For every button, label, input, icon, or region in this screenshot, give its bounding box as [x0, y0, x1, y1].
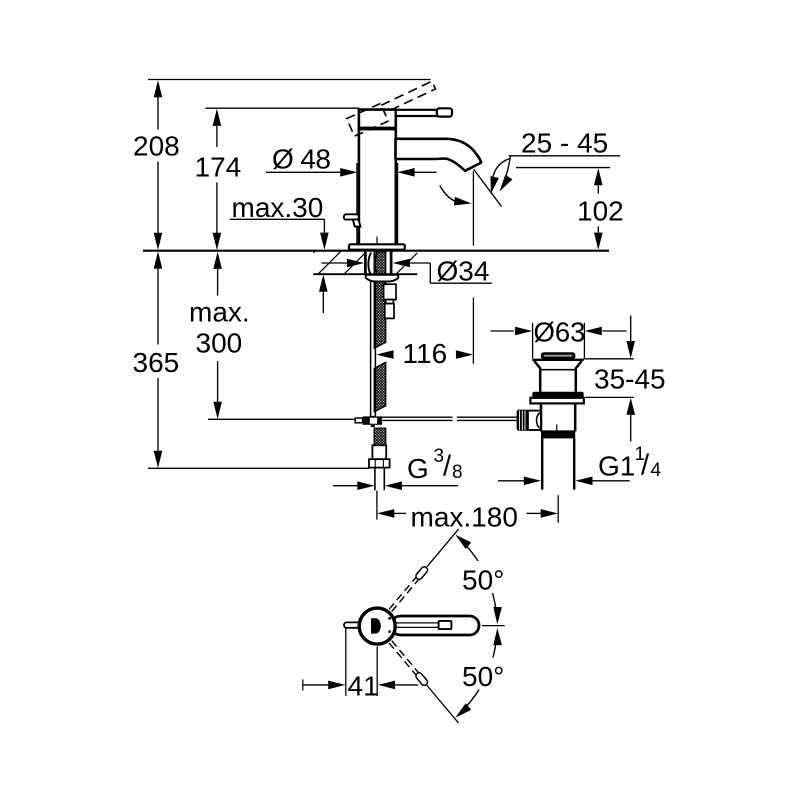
lift rod knob on body [344, 214, 361, 226]
dimension 116 [376, 338, 473, 369]
pop-up waste rubber gasket [532, 392, 583, 398]
dashed rod lower 50 [389, 641, 418, 675]
G3/8 connector pipe [375, 468, 384, 491]
pop-up waste body [541, 403, 575, 431]
label G1 1/4 [598, 444, 662, 482]
horizontal pop-up rod [382, 417, 517, 420]
svg-text:4: 4 [651, 460, 662, 481]
svg-text:35-45: 35-45 [594, 364, 666, 395]
top view faucet body circle [359, 608, 395, 644]
dimension 365 [133, 251, 180, 468]
dimension max.300 [189, 252, 250, 419]
extension line: cap top level (174) [206, 107, 360, 109]
svg-text:Ø63: Ø63 [534, 317, 586, 348]
svg-text:102: 102 [577, 195, 624, 226]
extension line: outlet height level (102 top) [516, 167, 610, 169]
handle raised position (dashed cap) [347, 104, 389, 137]
mounting shank walls [364, 252, 367, 274]
cap-body joint band [358, 127, 397, 131]
top view handle lever [391, 616, 479, 635]
top view lift rod stub [344, 622, 362, 627]
top view pivot dots [388, 617, 391, 620]
stream angle arc arrow left [440, 186, 472, 208]
supply hose braided segment 3 [374, 428, 386, 445]
svg-text:174: 174 [195, 152, 242, 183]
svg-text:G: G [407, 453, 429, 484]
supply hose braided segment 2 [374, 362, 386, 412]
handle cap top [358, 108, 397, 111]
svg-text:50°: 50° [462, 661, 504, 692]
pop-up waste joint line [540, 369, 576, 371]
top view centerline right [482, 625, 505, 627]
pop-up waste ball joint block [528, 411, 541, 430]
pop-up waste flange [530, 398, 583, 404]
dimension Ø34 with leader label [322, 256, 492, 287]
body centerline [376, 237, 378, 251]
deck hatching [292, 251, 420, 275]
svg-text:208: 208 [133, 131, 180, 162]
svg-text:116: 116 [403, 338, 448, 369]
extension line: hose end level (365 bottom) [148, 467, 369, 469]
washer plate under deck [366, 275, 398, 282]
label 25 - 45 with underline leader [496, 128, 620, 194]
dimension 35-45 [594, 316, 666, 442]
svg-text:365: 365 [133, 347, 180, 378]
extension line: lever tip level (top) [148, 79, 431, 81]
pop-up waste tailpipe [542, 438, 574, 489]
dimension max.180 [377, 491, 558, 533]
dimension 41 [303, 629, 418, 702]
extension line: spout outlet vertical [472, 171, 474, 246]
extension line 50 lower [427, 686, 459, 724]
dimension Ø63 [491, 317, 627, 359]
pop-up waste tapered neck [534, 361, 581, 392]
svg-text:/: / [443, 450, 452, 482]
dashed rod sleeve upper [415, 565, 429, 580]
dimension G3/8 arrows [333, 481, 458, 490]
extension lines 35-45 [583, 358, 633, 360]
svg-text:Ø34: Ø34 [437, 256, 490, 287]
extension line 50 upper [427, 529, 459, 567]
extension line: pop-up rod level (max.300 bottom) [208, 418, 355, 420]
deck line [143, 250, 609, 252]
svg-text:/: / [641, 450, 650, 482]
svg-text:25 - 45: 25 - 45 [521, 128, 608, 159]
handle lever paddle [437, 108, 452, 116]
svg-text:300: 300 [196, 327, 243, 358]
svg-text:G1: G1 [598, 451, 635, 482]
shank anti-rotation plate curves [368, 253, 377, 274]
label 50 lower [459, 658, 513, 693]
pop-up waste centerline tick [556, 425, 558, 432]
svg-text:max.30: max.30 [232, 192, 324, 223]
supply hose braided segment 1 [374, 252, 386, 348]
dashed rod sleeve lower [415, 671, 429, 686]
stream angle arc arrow right [487, 159, 510, 195]
second hose cut-off fitting [384, 284, 396, 318]
pop-up waste top rim [532, 359, 583, 361]
hose nut G3/8 [369, 459, 390, 467]
svg-text:41: 41 [348, 671, 379, 702]
handle raised position (dashed lever) [381, 81, 435, 113]
hose end ferrule [372, 445, 386, 459]
arc 50 upper [453, 531, 502, 624]
escutcheon [349, 244, 405, 249]
pop-up rod knurled coupling [517, 410, 528, 431]
dimension 102 [577, 168, 624, 250]
top view lever slot [396, 623, 438, 628]
top view lever paddle [439, 621, 452, 629]
faucet body right edge [394, 110, 397, 245]
dimension Ø48 [266, 143, 437, 246]
label 50 upper [459, 561, 513, 596]
faucet body left edge [358, 110, 361, 245]
deck bottom line [313, 273, 417, 275]
spout [396, 139, 482, 171]
arc 50 lower [453, 628, 502, 721]
pop-up waste knob [541, 352, 576, 359]
dashed rod upper 50 [389, 578, 418, 612]
svg-text:Ø 48: Ø 48 [272, 143, 330, 174]
svg-text:50°: 50° [462, 565, 504, 596]
svg-text:max.180: max.180 [411, 501, 518, 532]
dimension G1 1/4 [498, 477, 630, 486]
pop-up waste coupling nut band [541, 431, 575, 438]
handle lever bar [396, 110, 437, 116]
pop-up rod clamp block [355, 416, 382, 427]
dimension 174 [195, 109, 242, 250]
dimension max.30 [230, 192, 329, 313]
svg-text:max.: max. [189, 296, 250, 327]
top view cartridge hole [371, 618, 381, 633]
lift rod below deck [371, 281, 376, 417]
svg-text:8: 8 [452, 462, 463, 483]
water stream line [474, 169, 502, 206]
dimension 208 [133, 80, 180, 250]
label G 3/8 [407, 446, 463, 484]
